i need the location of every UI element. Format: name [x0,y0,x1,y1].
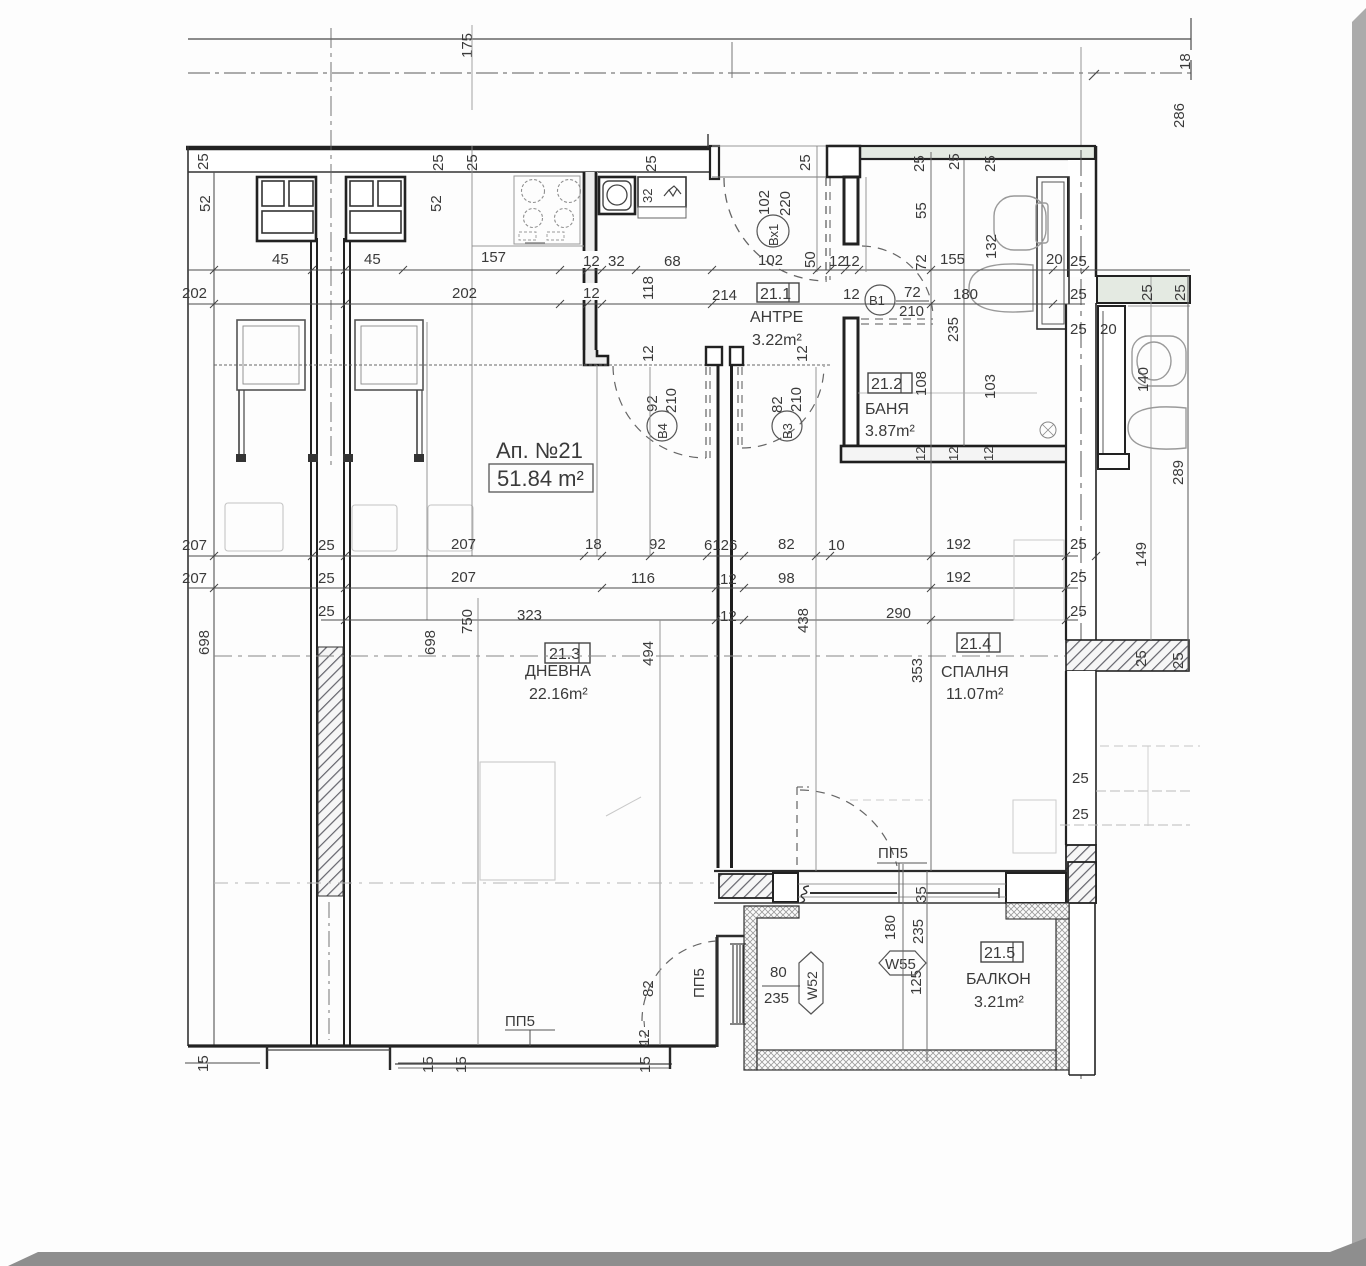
svg-text:БАНЯ: БАНЯ [865,401,909,418]
svg-text:ПП5: ПП5 [691,968,708,998]
party wall hatch [318,647,343,896]
row y620 [321,619,1078,621]
bottom dim line segments [185,1062,260,1064]
B1 door labels [843,284,999,399]
bathroom faint line y393 [858,392,1037,394]
svg-text:Ап. №21: Ап. №21 [496,438,583,463]
svg-text:353: 353 [909,658,926,683]
svg-text:12: 12 [583,253,600,270]
column below hatch band [1066,671,1096,845]
svg-text:25: 25 [1070,569,1087,586]
bathroom bottom wall 12 labels [913,447,996,461]
party wall strip B [343,238,345,1046]
svg-text:21.3: 21.3 [549,646,580,663]
door B3 arc [742,366,824,448]
svg-text:15: 15 [195,1055,212,1072]
faint dashed axis y883 [214,882,714,884]
room 21.5 [981,942,1023,962]
right area toilets [1128,336,1186,449]
svg-text:82: 82 [778,536,795,553]
svg-text:11.07m²: 11.07m² [946,686,1004,703]
svg-text:72: 72 [913,254,930,271]
svg-text:25: 25 [1070,253,1087,270]
svg-text:92: 92 [649,536,666,553]
svg-text:25: 25 [1139,284,1156,301]
svg-text:25: 25 [797,154,814,171]
svg-text:12: 12 [981,447,996,461]
svg-text:140: 140 [1135,367,1152,392]
svg-text:50: 50 [802,251,819,268]
svg-text:202: 202 [182,285,207,302]
dash-dot centerline [1080,150,1082,1080]
svg-text:220: 220 [777,191,794,216]
svg-text:202: 202 [452,285,477,302]
right vertical thin lines [1150,277,1152,640]
vertical tick x732 [731,42,733,78]
svg-text:3.21m²: 3.21m² [974,994,1024,1011]
svg-text:АНТРЕ: АНТРЕ [750,309,803,326]
circle tag Вх1 [757,215,789,247]
svg-text:ДНЕВНА: ДНЕВНА [525,663,591,680]
svg-text:21.4: 21.4 [960,636,991,653]
svg-text:12: 12 [636,1029,653,1046]
svg-text:207: 207 [182,537,207,554]
svg-text:32: 32 [640,189,655,203]
svg-text:80: 80 [770,964,787,981]
svg-text:52: 52 [197,195,214,212]
faint chairs row [225,503,473,551]
extension line x650 door B4 [649,367,651,556]
counter unit with plant icon [638,177,686,218]
faint lines right of wall [1100,745,1200,747]
radiator / narrow window W52 [733,945,743,1023]
svg-text:25: 25 [318,603,335,620]
svg-text:207: 207 [182,570,207,587]
party wall axis dash-dot [330,28,332,470]
radiator caps [730,943,746,945]
stove with burners [514,176,581,244]
svg-text:210: 210 [788,387,805,412]
svg-text:68: 68 [664,253,681,270]
svg-text:25: 25 [1133,650,1150,667]
bathroom right wall [1068,160,1096,277]
vertical dim lines balcony [902,864,904,1050]
lower window line [395,1063,672,1065]
svg-text:286: 286 [1171,103,1188,128]
svg-text:45: 45 [272,251,289,268]
svg-text:157: 157 [481,249,506,266]
svg-text:180: 180 [953,286,978,303]
hatched pier far right [1068,862,1096,903]
svg-text:82: 82 [640,980,657,997]
svg-text:12: 12 [843,253,860,270]
svg-text:102: 102 [756,190,773,215]
svg-text:175: 175 [459,33,476,58]
end tick x1191 line2 [1190,60,1192,80]
pier right [1006,873,1066,903]
svg-text:290: 290 [886,605,911,622]
svg-text:698: 698 [196,630,213,655]
svg-text:25: 25 [1072,770,1089,787]
end tick x1191 top [1190,18,1192,50]
svg-text:438: 438 [795,608,812,633]
door B4 arc [613,366,706,458]
svg-text:698: 698 [422,630,439,655]
svg-text:52: 52 [428,195,445,212]
bedroom window outer lines [798,883,1006,885]
long vertical extension line x931 [930,152,932,871]
faint dash line bedroom y800 [850,799,930,801]
svg-text:25: 25 [1070,321,1087,338]
right horizontal band (landing) [1097,276,1190,303]
extension line x478 living [477,598,479,1045]
svg-text:323: 323 [517,607,542,624]
svg-text:15: 15 [637,1056,654,1073]
svg-text:20: 20 [1046,251,1063,268]
closet unit 1 [257,177,316,241]
room 21.4 [957,633,1000,652]
svg-text:21.1: 21.1 [760,286,791,303]
slash ticks row y270 [210,266,1089,274]
svg-text:235: 235 [910,919,927,944]
right outer wall column [1066,304,1096,640]
bathroom door B1 leaf dashed [861,318,933,320]
vertical ref line x472 [471,25,473,110]
bathroom door B1 arc [862,246,933,318]
svg-text:СПАЛНЯ: СПАЛНЯ [941,664,1009,681]
sink unit [599,177,635,214]
svg-text:15: 15 [453,1056,470,1073]
living terrace door leaf [644,1021,646,1046]
bedroom balcony door arc [800,790,897,866]
faint wardrobe bedroom [1014,540,1064,620]
room 21.3 [545,643,590,663]
bathroom top rotated 25s [911,153,1087,271]
svg-text:25: 25 [1072,806,1089,823]
svg-text:БАЛКОН: БАЛКОН [966,971,1031,988]
svg-text:ПП5: ПП5 [878,845,908,862]
room 21.1 [757,283,799,302]
top dimension line 1 [188,38,1191,40]
long dash axis line y656 [214,655,1065,657]
bathroom left wall lower piece [844,318,858,446]
svg-text:ПП5: ПП5 [505,1013,535,1030]
hatched pier right of bedroom [1066,845,1096,903]
svg-text:289: 289 [1170,460,1187,485]
kitchen counter edge line [472,245,584,247]
svg-text:10: 10 [828,537,845,554]
svg-text:103: 103 [982,374,999,399]
living bottom wall line [188,1044,716,1047]
left lower step verticals [266,1046,268,1069]
svg-text:3.22m²: 3.22m² [752,332,802,349]
svg-text:22.16m²: 22.16m² [529,686,588,703]
svg-text:25: 25 [1172,284,1189,301]
svg-text:25: 25 [464,154,481,171]
table 1 legs [238,390,240,458]
entrance threshold line [712,176,830,178]
right crosshatch stub balcony [1006,903,1069,919]
balcony right wall crosshatch [1056,906,1069,1070]
svg-text:25: 25 [1070,286,1087,303]
shower cabin double rect [1037,177,1069,329]
slanted tick on line2 [1089,70,1099,80]
svg-text:12: 12 [913,447,928,461]
svg-text:25: 25 [1070,536,1087,553]
row y556 [188,555,1078,557]
svg-text:750: 750 [459,609,476,634]
column right of balcony [1069,903,1095,1075]
room 21.2 [868,373,912,393]
extension x427 [426,322,428,620]
bathroom bottom wall [841,446,1069,462]
balcony bottom wall crosshatch [757,1050,1056,1070]
drain symbol [1040,422,1056,438]
faint rect bedroom lower [1013,800,1056,853]
svg-text:W55: W55 [885,956,916,973]
left frame wall outer line [187,146,189,1046]
extension line x660 living [659,620,661,1045]
balcony left wall L crosshatch [744,906,799,1070]
svg-text:235: 235 [945,317,962,342]
svg-text:116: 116 [631,570,655,587]
toilet 2 / basin [969,264,1033,312]
svg-text:12: 12 [640,345,657,362]
svg-text:210: 210 [899,303,924,320]
slash ticks middle rows [210,552,1100,624]
W55 hexagon [879,951,926,975]
svg-text:15: 15 [420,1056,437,1073]
svg-text:192: 192 [946,569,971,586]
table 1 [237,320,305,390]
svg-text:25: 25 [1170,652,1187,669]
svg-text:118: 118 [640,276,657,300]
svg-text:18: 18 [585,536,602,553]
svg-text:207: 207 [451,536,476,553]
table 2 [355,320,423,390]
corner block over bathroom left [827,146,860,177]
door jamb bottom right of living [669,1046,671,1069]
svg-text:72: 72 [904,284,921,301]
svg-text:45: 45 [364,251,381,268]
svg-text:25: 25 [643,155,660,172]
party wall strip A [310,238,312,1046]
dim line 80-235 left [762,985,800,987]
svg-text:3.87m²: 3.87m² [865,423,915,440]
svg-text:214: 214 [712,287,737,304]
svg-text:В4: В4 [655,423,670,439]
svg-text:25: 25 [195,153,212,170]
slash ticks row y304 [210,300,1057,308]
living terrace door arc [642,941,716,1021]
svg-text:494: 494 [640,641,657,666]
svg-text:149: 149 [1133,542,1150,567]
svg-text:25: 25 [1070,603,1087,620]
svg-text:192: 192 [946,536,971,553]
bedroom balcony door dashed leaf [796,787,798,868]
left end jamb of entrance opening [710,146,719,179]
party wall lower centerline dash-dot [328,902,330,1040]
svg-text:В1: В1 [869,293,885,308]
svg-text:25: 25 [946,153,963,170]
svg-text:Вх1: Вх1 [766,224,781,246]
svg-text:155: 155 [940,251,965,268]
extension line x816 [815,367,817,871]
svg-text:12: 12 [946,447,961,461]
toilet 1 [994,196,1048,250]
hatch block in bedroom bottom wall [719,874,773,898]
extension line x866 bathroom door [865,177,867,272]
svg-text:12: 12 [843,286,860,303]
svg-text:235: 235 [764,990,789,1007]
left frame wall inner line [213,172,215,1046]
hatch band right middle [1066,640,1189,671]
svg-text:12: 12 [720,608,737,625]
extension x597 below kitchen wall [596,365,598,556]
svg-text:21.2: 21.2 [871,376,902,393]
svg-text:32: 32 [608,253,625,270]
scanner gray strip bottom [8,1238,1366,1266]
top wall right end tick [707,134,709,148]
extension x472 kitchen [471,146,473,556]
svg-text:25: 25 [430,154,447,171]
table 2 legs [416,390,418,458]
top outer wall left segment [188,146,712,172]
second bottom line left step [267,1049,390,1051]
row y588 [188,587,1078,589]
faint rug in living room [480,762,555,880]
svg-text:25: 25 [318,537,335,554]
svg-text:20: 20 [1100,321,1117,338]
svg-text:W52: W52 [804,971,820,1000]
right side faint lines [1096,790,1190,792]
svg-text:92: 92 [644,395,661,412]
bathroom inner vertical ref line [963,160,965,446]
entrance door Вх1 arc [724,178,827,281]
entrance door leaf [825,178,827,280]
faint diagonal living [606,797,641,816]
svg-text:180: 180 [882,915,899,940]
svg-text:6126: 6126 [704,537,737,554]
W52 hexagon [799,952,823,1014]
scanner gray strip right [1352,8,1366,1266]
door B3 leaf [737,367,739,448]
top dimension line 2 dash-dot [188,72,1191,74]
bathroom left wall upper piece [844,177,858,244]
row y304 [188,303,1085,305]
extension line x1081 down from line2 [1080,47,1082,145]
top outer wall right segment (bathroom) [830,146,1095,159]
svg-text:210: 210 [663,388,680,413]
pier [773,873,798,902]
svg-text:102: 102 [758,252,783,269]
row y270 [188,269,1190,271]
wall piece x1096-1125 [1098,306,1125,469]
rotated 25/52 labels top [195,153,814,212]
right side labels [1070,284,1189,823]
svg-text:55: 55 [913,202,930,219]
svg-text:98: 98 [778,570,795,587]
svg-text:207: 207 [451,569,476,586]
svg-text:25: 25 [911,155,928,172]
svg-text:В3: В3 [780,423,795,439]
living right wall at balcony [715,937,718,1047]
svg-text:82: 82 [769,396,786,413]
svg-text:25: 25 [982,155,999,172]
svg-text:132: 132 [983,234,1000,259]
extension line x817 entrance [816,146,818,272]
closet unit 2 [346,177,405,241]
door B4 leaf [705,367,707,458]
svg-text:108: 108 [913,371,930,396]
svg-text:21.5: 21.5 [984,945,1015,962]
svg-text:51.84 m²: 51.84 m² [497,466,584,491]
window end hook [800,886,809,903]
svg-text:12: 12 [583,285,600,302]
svg-text:25: 25 [318,570,335,587]
bedroom window glazing [810,892,897,894]
svg-text:12: 12 [720,571,737,588]
foot of that wall [1098,454,1129,469]
